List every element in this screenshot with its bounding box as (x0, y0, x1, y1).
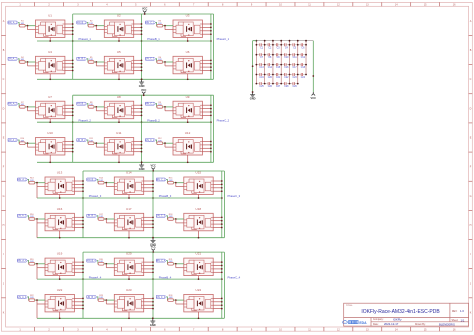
svg-text:EDA: EDA (359, 321, 367, 325)
net flag LIN_B_4 (87, 295, 97, 298)
wire gate feed (166, 180, 167, 183)
junction bottom pin (187, 78, 189, 80)
dual MOSFET U9 (173, 101, 202, 119)
pins drain/source right of U7 (65, 105, 73, 115)
resistor R6 10R (157, 57, 163, 63)
wire VCC rail group 4 (83, 251, 224, 253)
wire cap bank left leg (252, 41, 254, 92)
svg-text:GND: GND (150, 323, 156, 327)
wire resistor to gate (35, 182, 45, 184)
junction right pins (72, 23, 74, 35)
svg-text:U4: U4 (48, 50, 52, 54)
wire resistor to gate (35, 263, 45, 265)
net flag HIN_B_4 (86, 259, 96, 262)
svg-text:C17: C17 (293, 67, 298, 69)
pins drain/source right of U21 (213, 262, 222, 272)
svg-text:LIN_C_4: LIN_C_4 (156, 297, 166, 299)
svg-text:10R: 10R (158, 104, 162, 106)
svg-text:H: H (470, 224, 472, 227)
junction right pins (72, 104, 74, 116)
wire gate feed (97, 261, 98, 264)
wire gate feed (28, 216, 29, 219)
junction right pins (221, 261, 223, 273)
wire resistor to gate (163, 106, 173, 108)
svg-text:C26: C26 (268, 86, 273, 88)
pin tie left pins (106, 264, 114, 268)
dual MOSFET U24 (184, 294, 213, 312)
svg-text:U11: U11 (116, 131, 122, 135)
junction gate node (175, 263, 177, 265)
svg-text:U23: U23 (126, 288, 132, 292)
resistor R1 10R (19, 21, 25, 27)
wire gate feed (97, 216, 98, 219)
svg-text:HIN_A_1: HIN_A_1 (8, 21, 18, 24)
svg-text:LIN_B_2: LIN_B_2 (77, 140, 87, 142)
svg-text:10R: 10R (30, 216, 34, 218)
svg-text:HIN_B_2: HIN_B_2 (76, 104, 86, 106)
junction right pins (221, 216, 223, 228)
capacitor C25 (256, 82, 264, 88)
wire GND rail group 1 (37, 78, 214, 80)
wire phase bus B4 (152, 252, 154, 318)
junction bottom pin (198, 197, 200, 199)
ground GND (group 1) (139, 78, 145, 88)
svg-text:2022-12-17: 2022-12-17 (384, 322, 399, 326)
pins drain/source right of U14 (144, 181, 153, 191)
svg-text:LIN_A_3: LIN_A_3 (17, 215, 27, 218)
resistor R10 10R (19, 138, 25, 144)
svg-text:GND: GND (139, 167, 145, 171)
svg-text:PhaseA_2: PhaseA_2 (78, 118, 91, 122)
svg-text:HIN_C_3: HIN_C_3 (156, 179, 166, 181)
svg-text:10R: 10R (89, 104, 93, 106)
wire gate feed (166, 216, 167, 219)
dual MOSFET U1 (36, 20, 65, 38)
junction cap row crossings (256, 74, 307, 76)
net flag LIN_C_1 (145, 57, 155, 60)
svg-text:U24: U24 (196, 288, 202, 292)
net flag HIN_A_2 (8, 102, 18, 105)
junction right pins (82, 298, 84, 310)
svg-text:10R: 10R (89, 140, 93, 142)
svg-text:U14: U14 (126, 171, 132, 175)
junction bottom pin (128, 317, 130, 319)
svg-text:10R: 10R (158, 140, 162, 142)
junction gate node (36, 218, 38, 220)
svg-text:10R: 10R (169, 180, 173, 182)
junction right pins (221, 298, 223, 310)
pin tie left pins (37, 264, 45, 279)
junction cap column top (264, 40, 266, 42)
wire cap column 4 (280, 41, 282, 84)
wire gate feed (166, 261, 167, 264)
resistor R19 10R (29, 259, 35, 265)
junction cap column top (272, 40, 274, 42)
pin bottom of U4 (49, 74, 51, 80)
svg-text:HIN_A_3: HIN_A_3 (17, 178, 27, 181)
pin bottom of U3 (187, 38, 189, 42)
svg-text:PhaseA_4: PhaseA_4 (89, 275, 102, 279)
wire gate feed (87, 104, 88, 107)
pin tie left pins (165, 62, 173, 66)
capacitor C2 (265, 43, 273, 49)
junction phase bus (152, 278, 154, 280)
junction right pins (152, 298, 154, 310)
net flag LIN_A_2 (8, 139, 18, 142)
svg-text:IOKFly-Race-AM32-4in1-ESC-PDB: IOKFly-Race-AM32-4in1-ESC-PDB (361, 309, 440, 315)
pins drain/source right of U15 (213, 181, 222, 191)
resistor R15 10R (168, 178, 174, 184)
dual MOSFET U15 (184, 177, 213, 195)
svg-text:10R: 10R (158, 59, 162, 61)
svg-text:LIN_A_2: LIN_A_2 (8, 139, 18, 142)
wire gate feed (87, 59, 88, 62)
pin bottom of U2 (118, 38, 120, 42)
junction phase bus (210, 40, 212, 42)
net flag LIN_C_3 (156, 214, 166, 217)
svg-text:U10: U10 (47, 131, 53, 135)
pin bottom of U6 (187, 74, 189, 80)
junction phase bus (82, 197, 84, 199)
pin tie left pins (28, 62, 36, 66)
junction right pins (82, 261, 84, 273)
capacitor C27 (273, 82, 281, 88)
junction phase bus (141, 40, 143, 42)
wire resistor to gate (25, 106, 35, 108)
power flag VCC (group 4) (150, 245, 156, 253)
pins drain/source right of U19 (74, 262, 83, 272)
svg-text:PhaseB_1: PhaseB_1 (147, 37, 160, 41)
wire resistor to gate (25, 25, 35, 27)
junction right pins (141, 23, 143, 35)
capacitor C16 (281, 63, 289, 69)
wire resistor to gate (104, 218, 114, 220)
capacitor C21 (273, 73, 281, 79)
junction phase bus (221, 197, 223, 199)
capacitor C28 (281, 82, 289, 88)
wire right return group 3 (223, 171, 225, 238)
dual MOSFET U16 (45, 213, 74, 231)
pin tie left pins (37, 300, 45, 318)
junction right pins (141, 59, 143, 71)
junction gate node (36, 299, 38, 301)
junction gate node (105, 218, 107, 220)
wire resistor to gate (35, 299, 45, 301)
resistor R2 10R (88, 21, 94, 27)
junction gate node (105, 263, 107, 265)
svg-text:HIN_C_4: HIN_C_4 (156, 261, 166, 263)
junction bottom pin (49, 161, 51, 163)
resistor R8 10R (88, 102, 94, 108)
capacitor C20 (265, 73, 273, 79)
svg-text:Drawn By:: Drawn By: (415, 323, 426, 326)
svg-text:10R: 10R (99, 297, 103, 299)
capacitor C11 (289, 53, 297, 59)
capacitor C17 (289, 63, 297, 69)
logo JLCEDA (343, 320, 368, 325)
svg-text:HIN_B_3: HIN_B_3 (86, 179, 96, 181)
svg-text:10R: 10R (89, 23, 93, 25)
wire gate feed (156, 59, 157, 62)
pin bottom of U1 (49, 38, 51, 42)
resistor R23 10R (98, 295, 104, 301)
wire phase bus A1 (72, 14, 74, 79)
svg-text:C16: C16 (284, 67, 289, 69)
net flag HIN_C_2 (145, 102, 156, 105)
junction bottom pin (198, 278, 200, 280)
pin tie left pins (96, 62, 104, 66)
junction bottom pin (198, 237, 200, 239)
svg-text:C19: C19 (259, 77, 264, 79)
svg-text:VCC: VCC (311, 96, 317, 100)
wire resistor to gate (174, 182, 184, 184)
junction bottom pin (59, 197, 61, 199)
net flag LIN_C_2 (145, 139, 155, 142)
junction phase bus (210, 121, 212, 123)
net flag LIN_C_4 (156, 295, 166, 298)
junction cap column top (289, 40, 291, 42)
resistor R3 10R (157, 21, 163, 27)
pin tie left pins (106, 183, 114, 187)
junction bottom pin (187, 161, 189, 163)
wire resistor to gate (104, 299, 114, 301)
capacitor C7 (256, 53, 264, 59)
junction bottom pin (49, 40, 51, 42)
capacitor C14 (265, 63, 273, 69)
net flag HIN_B_2 (76, 102, 86, 105)
wire resistor to gate (35, 218, 45, 220)
pin tie left pins (176, 264, 184, 268)
wire gate feed (156, 140, 157, 143)
capacitor C5 (289, 43, 297, 49)
pin bottom of U16 (59, 231, 61, 238)
svg-text:10R: 10R (20, 104, 24, 106)
junction gate node (95, 61, 97, 63)
junction gate node (164, 61, 166, 63)
svg-text:10R: 10R (158, 23, 162, 25)
pins drain/source right of U20 (144, 262, 153, 272)
net flag HIN_B_3 (86, 178, 96, 181)
wire phase bus B1 (141, 14, 143, 79)
pin bottom of U13 (59, 195, 61, 199)
dual MOSFET U12 (173, 138, 202, 156)
junction right pins (82, 180, 84, 192)
dual MOSFET U11 (104, 138, 133, 156)
capacitor C23 (289, 73, 297, 79)
capacitor C19 (256, 73, 264, 79)
junction right pins (152, 180, 154, 192)
power flag VCC (group 1) (142, 7, 148, 15)
junction phase bus (82, 278, 84, 280)
power flag VCC (group 2) (141, 88, 147, 96)
svg-text:C24: C24 (301, 77, 306, 79)
svg-text:HIN_B_4: HIN_B_4 (86, 261, 96, 263)
wire gate feed (166, 297, 167, 300)
svg-text:LIN_C_1: LIN_C_1 (145, 59, 155, 61)
pin tie left pins (165, 107, 173, 111)
svg-text:PhaseB_4: PhaseB_4 (159, 275, 172, 279)
junction gate node (105, 299, 107, 301)
svg-text:U16: U16 (57, 207, 63, 211)
wire gate feed (156, 23, 157, 26)
pin tie left pins (37, 219, 45, 238)
capacitor C10 (281, 53, 289, 59)
junction cap bank right (312, 75, 314, 77)
wire phase bus C4 (221, 252, 223, 318)
svg-text:U12: U12 (185, 131, 191, 135)
wire right return group 1 (213, 14, 215, 79)
net flag HIN_C_4 (156, 259, 167, 262)
pin tie left pins (96, 143, 104, 147)
svg-text:PhaseB_2: PhaseB_2 (147, 118, 160, 122)
junction right pins (210, 23, 212, 35)
junction bottom pin (128, 278, 130, 280)
net flag LIN_B_2 (77, 139, 87, 142)
svg-text:D: D (3, 107, 5, 110)
junction gate node (175, 182, 177, 184)
net flag HIN_B_1 (76, 21, 86, 24)
pin tie left pins (96, 26, 104, 30)
resistor R18 10R (168, 214, 174, 220)
junction gate node (36, 182, 38, 184)
net flag HIN_A_1 (8, 21, 18, 24)
svg-text:U3: U3 (186, 14, 190, 18)
svg-text:10R: 10R (169, 297, 173, 299)
junction cap column top (280, 40, 282, 42)
junction bottom pin (59, 237, 61, 239)
svg-text:G: G (470, 195, 472, 198)
svg-text:C13: C13 (259, 67, 264, 69)
net flag HIN_C_1 (145, 21, 156, 24)
wire phase bus C1 (210, 14, 212, 79)
wire cap column 6 (297, 41, 299, 84)
dual MOSFET U19 (45, 258, 74, 276)
svg-text:10R: 10R (169, 261, 173, 263)
svg-text:C: C (470, 78, 472, 81)
junction right pins (141, 141, 143, 153)
capacitor C12 (298, 53, 306, 59)
junction bottom pin (128, 237, 130, 239)
dual MOSFET U22 (45, 294, 74, 312)
svg-text:U1: U1 (48, 14, 52, 18)
svg-text:HIN_C_1: HIN_C_1 (145, 22, 155, 24)
junction right pins (210, 141, 212, 153)
junction bottom pin (118, 161, 120, 163)
wire cap bank top rail (253, 40, 314, 42)
junction phase bus (221, 278, 223, 280)
pin bottom of U21 (198, 276, 200, 280)
wire VCC rail group 1 (73, 13, 214, 15)
svg-text:LIN_A_4: LIN_A_4 (17, 296, 27, 299)
dual MOSFET U10 (36, 138, 65, 156)
dual MOSFET U7 (36, 101, 65, 119)
svg-text:VCC: VCC (142, 7, 148, 11)
svg-text:U15: U15 (196, 171, 202, 175)
svg-text:VCC: VCC (150, 245, 156, 249)
capacitor C18 (298, 63, 306, 69)
dual MOSFET U5 (104, 56, 133, 74)
wire gate feed (97, 297, 98, 300)
pin tie left pins (28, 26, 36, 30)
resistor R7 10R (19, 102, 25, 108)
pins drain/source right of U24 (213, 298, 222, 308)
svg-text:C14: C14 (268, 67, 273, 69)
wire cap column 3 (272, 41, 274, 84)
wire phase bus A4 (82, 252, 84, 318)
svg-text:PhaseC_1: PhaseC_1 (217, 37, 230, 41)
wire gate feed (28, 261, 29, 264)
wire cap column 7 (305, 41, 307, 75)
junction gate node (27, 61, 29, 63)
junction right pins (82, 216, 84, 228)
dual MOSFET U8 (104, 101, 133, 119)
pin bottom of U19 (59, 276, 61, 280)
pin tie left pins (106, 300, 114, 304)
svg-text:C: C (3, 78, 5, 81)
wire GND rail group 3 (37, 237, 224, 239)
resistor R4 10R (19, 57, 25, 63)
net flag LIN_A_1 (8, 57, 18, 60)
wire resistor to gate (163, 142, 173, 144)
wire gate feed (97, 180, 98, 183)
pin bottom of U7 (49, 119, 51, 123)
wire gate feed (18, 104, 19, 107)
junction cap column top (297, 40, 299, 42)
junction right pins (210, 59, 212, 71)
junction right pins (210, 104, 212, 116)
pin tie left pins (28, 107, 36, 111)
wire cap column 2 (264, 41, 266, 84)
svg-text:10R: 10R (99, 216, 103, 218)
wire phase bus A2 (72, 95, 74, 162)
svg-text:10R: 10R (20, 59, 24, 61)
wire phase row group 4 (37, 278, 222, 280)
wire gate feed (156, 104, 157, 107)
wire gate feed (18, 59, 19, 62)
wire right return group 2 (213, 95, 215, 162)
svg-text:C10: C10 (284, 57, 289, 59)
wire resistor to gate (163, 61, 173, 63)
net flag LIN_A_3 (17, 214, 27, 217)
dual MOSFET U20 (114, 258, 143, 276)
svg-text:10R: 10R (20, 140, 24, 142)
svg-text:C15: C15 (276, 67, 281, 69)
svg-text:10R: 10R (169, 216, 173, 218)
pins drain/source right of U13 (74, 181, 83, 191)
svg-text:1/1: 1/1 (461, 318, 465, 322)
svg-text:H: H (3, 224, 5, 227)
svg-text:D: D (470, 107, 472, 110)
svg-text:U18: U18 (196, 207, 202, 211)
svg-text:HIN_C_2: HIN_C_2 (145, 104, 155, 106)
wire left leg to matrix (253, 40, 257, 42)
pin bottom of U10 (49, 155, 51, 162)
junction bottom pin (118, 40, 120, 42)
capacitor C13 (256, 63, 264, 69)
svg-text:C27: C27 (276, 86, 281, 88)
junction bottom pin (49, 121, 51, 123)
pin bottom of U24 (198, 312, 200, 318)
pins drain/source right of U23 (144, 298, 153, 308)
power flag VCC (cap bank) (311, 92, 317, 100)
svg-text:10R: 10R (89, 59, 93, 61)
junction cap row crossings (256, 54, 307, 56)
wire phase bus B2 (141, 95, 143, 162)
pin tie left pins (176, 300, 184, 304)
wire phase row group 3 (37, 197, 222, 199)
wire right return group 4 (223, 252, 225, 318)
capacitor C24 (298, 73, 306, 79)
